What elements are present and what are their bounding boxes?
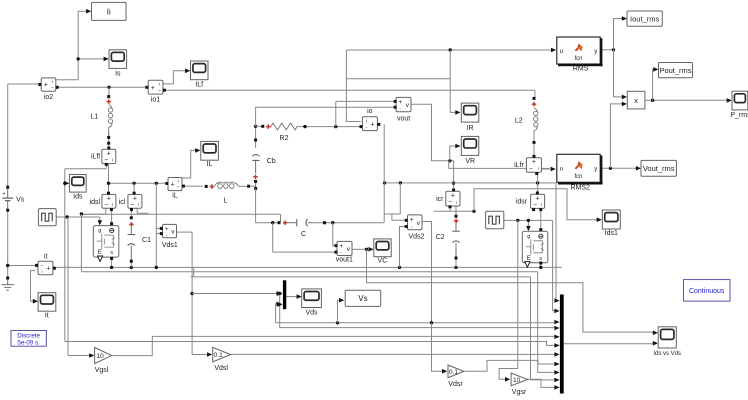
- wire io2 signal to Ii and Is: [56, 11, 87, 80]
- svg-text:s: s: [539, 256, 542, 262]
- svg-text:+: +: [2, 192, 5, 198]
- svg-text:iLfr: iLfr: [514, 162, 524, 169]
- gain Vdsr: [448, 365, 464, 378]
- wire io- down col: [383, 124, 385, 222]
- wire icl signal stub: [137, 208, 148, 213]
- wire mux Vds out: [286, 296, 297, 298]
- svg-text:vout1: vout1: [336, 256, 353, 263]
- junction vout1+ branch: [331, 221, 334, 224]
- svg-text:+: +: [371, 121, 375, 128]
- wire pulse right output: [504, 219, 553, 221]
- svg-text:u: u: [560, 49, 563, 55]
- wire Vds1 v out: [177, 231, 193, 233]
- wire iLfr to RMS2 under: [542, 168, 550, 170]
- svg-text:i: i: [112, 157, 113, 162]
- powergui Discrete: [11, 331, 46, 347]
- svg-text:idsl: idsl: [90, 199, 101, 206]
- pulse generator left: [38, 209, 56, 226]
- svg-text:RMS: RMS: [573, 66, 589, 73]
- wire L1 bottom to iLfl: [108, 132, 110, 149]
- svg-text:0.1: 0.1: [214, 352, 223, 359]
- svg-text:iL: iL: [172, 193, 178, 200]
- svg-text:VC: VC: [378, 258, 388, 265]
- svg-text:i: i: [538, 166, 539, 171]
- svg-text:Vdsr: Vdsr: [448, 381, 463, 388]
- svg-text:Vdsl: Vdsl: [214, 365, 228, 372]
- wire io signal up: [346, 50, 360, 122]
- mosfet subsystem right: [522, 231, 548, 262]
- voltage measurement vout: [396, 97, 411, 111]
- ground: [6, 277, 9, 280]
- junction node A 3: [155, 182, 158, 185]
- svg-text:i: i: [366, 118, 367, 123]
- svg-text:i: i: [178, 179, 179, 184]
- capacitor Cb: [252, 155, 259, 157]
- svg-text:RMS2: RMS2: [570, 185, 590, 192]
- product block x: [627, 91, 645, 109]
- svg-text:E: E: [527, 256, 531, 262]
- capacitor C2: [455, 215, 458, 218]
- wire iL- to L: [184, 185, 203, 187]
- wire iL signal to IL scope: [181, 150, 196, 178]
- svg-text:IR: IR: [467, 125, 474, 132]
- wire mosfet1 source to bus1: [111, 260, 113, 268]
- powergui Continuous: [684, 280, 731, 302]
- svg-text:y: y: [594, 167, 597, 173]
- svg-text:E: E: [98, 250, 102, 256]
- scope It: [38, 293, 56, 312]
- scope VR: [461, 136, 479, 155]
- svg-text:g: g: [98, 228, 101, 234]
- scope Is: [109, 50, 127, 69]
- svg-text:VR: VR: [465, 158, 475, 165]
- svg-text:s: s: [110, 250, 113, 256]
- svg-text:−: −: [529, 166, 533, 173]
- current measurement icl: [128, 194, 142, 208]
- wire io1- to L2 top: [166, 89, 535, 91]
- junction Ids scope branch: [63, 182, 66, 185]
- svg-text:y: y: [594, 49, 597, 55]
- svg-text:u: u: [560, 167, 563, 173]
- wire C right node rail: [310, 222, 385, 224]
- svg-text:Is: Is: [115, 71, 121, 78]
- svg-text:P_rms: P_rms: [730, 112, 748, 119]
- fcn block RMS: [557, 37, 600, 64]
- wire Vdsl out to mux: [231, 353, 557, 355]
- junction node A 2: [132, 182, 135, 185]
- scope IL: [201, 141, 219, 160]
- wire io1 signal to ILf scope: [163, 71, 186, 84]
- junction rail io-: [383, 181, 386, 184]
- svg-text:+: +: [46, 266, 50, 273]
- junction rail iLfr: [536, 181, 539, 184]
- svg-text:g: g: [527, 234, 530, 240]
- wire col jog y214: [384, 213, 400, 215]
- wire mosfet2 source col: [540, 264, 542, 267]
- svg-text:i: i: [52, 79, 53, 84]
- current measurement iLfl: [102, 149, 116, 163]
- svg-text:i: i: [42, 269, 43, 274]
- junction vout1- branch: [271, 221, 274, 224]
- scope VC: [374, 239, 391, 257]
- junction io2 signal branch: [77, 57, 80, 60]
- wire L2 bottom to iLfr: [533, 144, 535, 155]
- xy scope Ids vs Vds: [658, 327, 676, 348]
- svg-text:+: +: [44, 82, 48, 89]
- junction RMS2 out: [609, 167, 612, 170]
- wire L to Cb node: [250, 185, 255, 187]
- voltage measurement vout1: [337, 241, 352, 255]
- wire Vgsr out to mux: [528, 379, 557, 387]
- svg-text:Iout_rms: Iout_rms: [630, 14, 659, 23]
- svg-text:x: x: [634, 96, 638, 105]
- wire Vs+ to io2+: [7, 84, 9, 186]
- svg-text:−: −: [131, 202, 135, 209]
- to-workspace Iout_rms: [627, 11, 662, 26]
- bus3 rail: [193, 267, 195, 277]
- capacitor C1: [130, 216, 133, 219]
- svg-text:Vds1: Vds1: [162, 242, 178, 249]
- scope IR: [461, 103, 479, 122]
- pulse generator right: [486, 211, 504, 229]
- svg-text:IL: IL: [207, 161, 213, 168]
- current measurement idsl: [102, 194, 116, 208]
- svg-text:Continuous: Continuous: [689, 288, 725, 295]
- mux main: [560, 295, 564, 394]
- svg-text:−: −: [533, 202, 537, 209]
- current measurement iL: [168, 178, 182, 191]
- wire Vs- down to ground/it: [7, 211, 9, 277]
- svg-text:+: +: [171, 182, 175, 189]
- junction Vds1 v to big mux: [278, 292, 281, 295]
- svg-text:R2: R2: [280, 135, 289, 142]
- wire idsl signal line: [81, 209, 105, 215]
- svg-text:fcn: fcn: [574, 56, 582, 62]
- junction bus1 C2: [454, 266, 457, 269]
- svg-text:ILf: ILf: [195, 82, 203, 89]
- wire io2- to io1+: [58, 86, 145, 88]
- wire to RMS2 u: [449, 161, 550, 169]
- svg-text:Vout_rms: Vout_rms: [643, 164, 675, 173]
- junction R2 right 1: [303, 125, 306, 128]
- svg-text:Vds2: Vds2: [409, 234, 425, 241]
- scope P_rms: [732, 91, 748, 110]
- junction bus1 Vds2: [398, 266, 401, 269]
- junction R2 right 2: [334, 125, 337, 128]
- svg-text:−: −: [105, 202, 109, 209]
- svg-text:icl: icl: [119, 199, 126, 206]
- svg-text:10: 10: [513, 377, 521, 384]
- dc source Vs: [6, 186, 9, 189]
- gain Vdsl: [213, 347, 231, 362]
- svg-text:.: .: [166, 230, 168, 237]
- junction vout1 XY branch: [365, 248, 368, 251]
- wire iLfl- down to node A: [108, 164, 110, 193]
- current measurement io: [362, 117, 377, 131]
- wire big mux out to XY scope: [564, 343, 654, 345]
- svg-text:L: L: [224, 198, 228, 205]
- rail y183: [385, 182, 557, 184]
- svg-text:Cb: Cb: [267, 158, 276, 165]
- svg-text:i: i: [138, 202, 139, 207]
- gain Vgsr: [511, 373, 528, 386]
- junction bus1 Vds1: [155, 266, 158, 269]
- svg-text:it: it: [44, 253, 48, 260]
- svg-text:Ii: Ii: [107, 7, 111, 16]
- svg-text:Ids: Ids: [73, 194, 83, 201]
- svg-text:−: −: [51, 85, 54, 91]
- svg-text:L1: L1: [91, 114, 99, 121]
- junction bus1 mosfet1: [110, 266, 113, 269]
- svg-text:Vds: Vds: [305, 310, 318, 317]
- junction vgsr branch: [516, 219, 519, 222]
- svg-text:i: i: [541, 202, 542, 207]
- wire R2 left stub: [256, 125, 262, 127]
- junction idsl bus2: [80, 212, 83, 215]
- svg-text:L2: L2: [515, 118, 523, 125]
- junction IR branch: [449, 48, 452, 51]
- svg-text:iLfl: iLfl: [91, 154, 100, 161]
- node A rail y183: [109, 182, 167, 184]
- resistor R2: [261, 125, 264, 128]
- wire iLfl signal to Ids scope and bus: [65, 165, 107, 169]
- current measurement icr: [446, 191, 460, 206]
- wire rail to mux 1: [555, 183, 558, 301]
- junction vgsl branch: [66, 215, 69, 218]
- junction product out: [651, 99, 654, 102]
- gain Vgsl: [95, 348, 112, 364]
- svg-text:vout: vout: [397, 116, 410, 123]
- voltage measurement Vds2: [408, 215, 423, 230]
- wire Vds2- to bus1: [400, 227, 406, 268]
- wire Vdsr out to mux: [464, 360, 557, 371]
- wire to Vds2+: [392, 214, 406, 220]
- wire Vgsl out to mux: [112, 336, 557, 355]
- bus2 idsl signal: [81, 271, 537, 273]
- svg-text:−: −: [448, 199, 452, 206]
- svg-text:It: It: [45, 313, 49, 320]
- svg-text:.: .: [340, 248, 342, 255]
- capacitor C: [278, 221, 281, 224]
- svg-text:Ids vs Vds: Ids vs Vds: [653, 351, 681, 357]
- svg-text:icr: icr: [436, 196, 444, 203]
- svg-text:10: 10: [96, 353, 104, 360]
- mosfet subsystem left: [93, 226, 119, 258]
- wire Vds1+ stub: [156, 227, 161, 229]
- svg-text:−: −: [177, 184, 180, 190]
- svg-text:C2: C2: [436, 234, 445, 241]
- current measurement iLfr: [526, 158, 541, 173]
- svg-text:5e-09 s.: 5e-09 s.: [17, 339, 40, 346]
- svg-text:.: .: [399, 104, 401, 111]
- to-workspace Vout_rms: [641, 160, 676, 176]
- svg-text:C1: C1: [142, 237, 151, 244]
- wire aux y79: [346, 78, 450, 80]
- wire R2 node to vout-: [255, 107, 257, 126]
- wire down to icr+: [453, 161, 455, 189]
- inductor L: [205, 185, 208, 188]
- svg-text:C: C: [301, 231, 306, 238]
- svg-text:idsr: idsr: [516, 199, 528, 206]
- wire it signal to It scope: [31, 271, 36, 302]
- junction RMS out: [612, 48, 615, 51]
- mux Vds: [283, 280, 286, 309]
- svg-text:Vs: Vs: [358, 294, 367, 303]
- junction y183 icr: [452, 181, 455, 184]
- svg-text:io2: io2: [44, 94, 53, 101]
- svg-text:Vgsr: Vgsr: [512, 389, 527, 396]
- junction node A 1: [107, 182, 110, 185]
- junction Vds1 v to mux Vds: [190, 292, 193, 295]
- current measurement io1: [148, 80, 163, 94]
- to-workspace Ii: [92, 2, 127, 20]
- inductor L2: [533, 97, 536, 100]
- current measurement it: [38, 261, 53, 275]
- scope Vds: [302, 289, 322, 308]
- wire R2 right to io+: [297, 126, 359, 128]
- wire pulse gen left output: [56, 216, 100, 218]
- scope Ids: [69, 175, 86, 193]
- wire u into RMS: [346, 49, 551, 51]
- bus1 source rail: [56, 266, 562, 268]
- voltage measurement Vds1: [163, 224, 177, 237]
- svg-text:i: i: [456, 200, 457, 205]
- svg-text:.: .: [411, 222, 413, 229]
- svg-text:io1: io1: [151, 97, 160, 104]
- svg-text:fcn: fcn: [574, 174, 582, 180]
- scope ILf: [191, 61, 209, 80]
- wire RMS y out: [600, 49, 613, 51]
- wire vout1 v out: [352, 248, 366, 250]
- junction R2 left node: [254, 125, 257, 128]
- junction VR branch: [448, 159, 451, 162]
- svg-text:Ids1: Ids1: [605, 230, 618, 237]
- junction L1 branch: [107, 86, 110, 89]
- wire col up to rail: [399, 183, 401, 214]
- junction icr node: [472, 210, 475, 213]
- svg-text:Vs: Vs: [16, 197, 25, 204]
- wire LC node to C+: [255, 222, 277, 224]
- wire icr- to C2: [455, 206, 457, 215]
- svg-text:Vgsl: Vgsl: [95, 367, 109, 374]
- to-workspace Pout_rms: [659, 63, 693, 78]
- wire idsr- to mosfet2 D: [540, 211, 542, 230]
- scope Ids1: [602, 210, 620, 229]
- to-workspace Vs: [345, 290, 381, 306]
- wire idsl- to mosfet D: [111, 211, 113, 223]
- svg-text:+: +: [151, 85, 155, 92]
- junction vds sig Vdsr: [430, 321, 433, 324]
- svg-text:0.1: 0.1: [449, 369, 458, 376]
- svg-text:i: i: [159, 81, 160, 86]
- junction vds sig Vs block: [336, 321, 339, 324]
- wire Vds1- stub: [156, 233, 161, 235]
- junction rail 2: [399, 181, 402, 184]
- junction at Vs-/it: [6, 264, 9, 267]
- svg-text:−: −: [158, 88, 161, 94]
- svg-text:Pout_rms: Pout_rms: [659, 66, 691, 75]
- junction LC node: [254, 187, 257, 190]
- fcn block RMS2: [557, 154, 600, 182]
- current measurement io2: [41, 78, 56, 91]
- wire icr bottom node: [450, 206, 474, 211]
- wire vout v out: [411, 104, 453, 161]
- current measurement idsr: [531, 194, 545, 208]
- svg-text:io: io: [367, 108, 373, 115]
- junction vds sig mux-vds: [276, 304, 277, 323]
- inductor L1: [107, 95, 110, 98]
- rail vds right signal: [276, 322, 557, 324]
- wire Vds2 v out: [422, 222, 431, 323]
- wire icl- to C1: [130, 211, 132, 217]
- junction bus1 C1: [130, 266, 133, 269]
- wire RMS2 y out: [600, 167, 636, 169]
- svg-text:i: i: [112, 202, 113, 207]
- junction gate right: [527, 219, 530, 222]
- wire Cb top to R2 node: [255, 126, 257, 148]
- wire C2 bottom to bus1: [455, 259, 457, 268]
- wire product out: [645, 99, 727, 101]
- svg-text:−: −: [104, 157, 108, 164]
